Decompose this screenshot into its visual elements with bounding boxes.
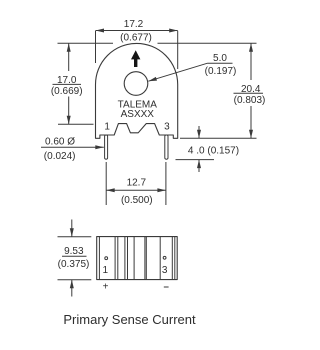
svg-text:Primary Sense Current: Primary Sense Current bbox=[63, 312, 196, 327]
dim 4.0 lower arrow bbox=[198, 160, 200, 172]
dim 4.0 upper arrow bbox=[198, 126, 200, 138]
bottom view inner line f bbox=[133, 237, 135, 280]
bottom view inner line b bbox=[114, 237, 116, 280]
bottom view inner line g bbox=[144, 237, 146, 280]
bottom view inner line j bbox=[171, 237, 173, 280]
svg-text:4 .0 (0.157): 4 .0 (0.157) bbox=[188, 146, 239, 157]
polarity minus bbox=[164, 286, 169, 288]
svg-text:1: 1 bbox=[103, 265, 109, 276]
pin 3 extension line down bbox=[165, 162, 167, 205]
pin 1 extension line down bbox=[105, 162, 107, 205]
bottom view inner line d bbox=[124, 237, 126, 280]
dome top extension line left bbox=[58, 42, 114, 44]
bottom view pin 3 dot bbox=[163, 256, 166, 259]
dim 9.53 bottom extension line bbox=[58, 279, 92, 281]
dim 9.53 upper arrow bbox=[71, 220, 73, 237]
dim 17.2 extension line right bbox=[177, 31, 179, 69]
dim 9.53 lower arrow bbox=[71, 280, 73, 297]
bottom view pin 1 dot bbox=[105, 257, 108, 260]
svg-text:(0.024): (0.024) bbox=[44, 151, 76, 162]
bottom view case rectangle bbox=[97, 237, 178, 280]
bottom view inner line a bbox=[98, 237, 100, 280]
feet bottom extension line bbox=[180, 137, 257, 139]
dim 20.4 dimension line lower with arrow bbox=[250, 106, 252, 138]
dim 17.2 extension line left bbox=[95, 31, 97, 63]
svg-text:1: 1 bbox=[104, 122, 110, 133]
svg-text:9.53: 9.53 bbox=[64, 246, 84, 257]
dim 20.4 dimension line upper with arrow bbox=[250, 43, 252, 80]
bottom view inner line e bbox=[127, 237, 129, 280]
fraction bar 20.4 bbox=[234, 92, 264, 94]
bottom view inner line k bbox=[174, 237, 176, 280]
svg-text:12.7: 12.7 bbox=[127, 178, 147, 189]
svg-text:3: 3 bbox=[162, 265, 168, 276]
dim 5.0 leader with arrow to hole bbox=[148, 63, 207, 81]
svg-text:(0.500): (0.500) bbox=[121, 195, 153, 206]
fraction bar 9.53 bbox=[62, 255, 87, 257]
svg-text:(0.375): (0.375) bbox=[58, 259, 90, 270]
svg-text:17.2: 17.2 bbox=[124, 19, 144, 30]
dim 9.53 top extension line bbox=[58, 236, 92, 238]
dim 17.0 bottom extension line bbox=[58, 123, 94, 125]
fraction bar 17.0 bbox=[53, 83, 82, 85]
svg-text:+: + bbox=[103, 281, 109, 292]
pin 1 (front view) bbox=[105, 135, 108, 159]
center hole bbox=[124, 72, 148, 96]
svg-text:(0.803): (0.803) bbox=[234, 95, 266, 106]
bottom view inner line i bbox=[159, 237, 161, 280]
svg-text:(0.669): (0.669) bbox=[51, 86, 83, 97]
dim 17.0 dimension line lower with arrow bbox=[68, 97, 70, 125]
svg-text:(0.197): (0.197) bbox=[205, 66, 237, 77]
svg-text:(0.677): (0.677) bbox=[120, 33, 152, 44]
pin tip extension line bbox=[176, 159, 215, 161]
svg-text:5.0: 5.0 bbox=[213, 53, 227, 64]
dim 17.2 dimension line bbox=[96, 30, 178, 32]
dim 17.0 dimension line upper with arrow bbox=[68, 43, 70, 71]
pin 3 (front view) bbox=[165, 135, 168, 159]
dim 5.0 underline bbox=[208, 62, 233, 64]
dome top extension line right bbox=[158, 42, 257, 44]
svg-text:ASXXX: ASXXX bbox=[121, 109, 155, 120]
bottom view inner line c bbox=[117, 237, 119, 280]
transformer body outline (front view) bbox=[96, 43, 178, 138]
bottom view inner line h bbox=[145, 237, 147, 280]
orientation arrow (bold) bbox=[131, 50, 140, 67]
dim 12.7 dimension line bbox=[106, 189, 166, 191]
dim 0.60 leader with arrow to pin bbox=[41, 146, 104, 148]
svg-text:3: 3 bbox=[164, 122, 170, 133]
svg-text:0.60 Ø: 0.60 Ø bbox=[45, 136, 75, 147]
